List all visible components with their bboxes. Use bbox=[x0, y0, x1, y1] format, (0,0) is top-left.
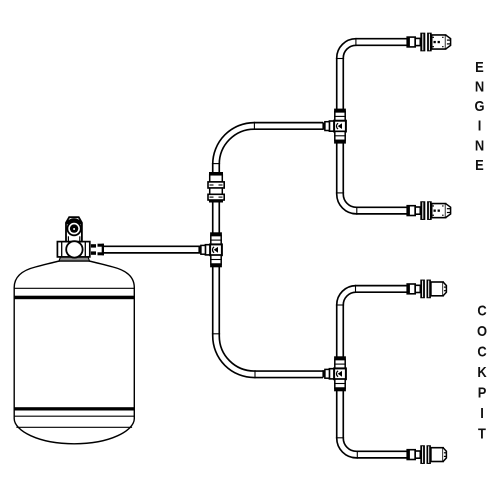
label ENGINE bbox=[474, 58, 484, 173]
svg-text:N: N bbox=[475, 136, 484, 153]
svg-text:C: C bbox=[477, 301, 486, 318]
wire joint tick engine bottom horiz bbox=[356, 207, 358, 215]
wire joint tick lower bend horiz bbox=[254, 370, 256, 378]
union flange lower bbox=[208, 194, 224, 200]
wire joint tick cockpit top horiz bbox=[355, 285, 357, 293]
gauge dial disc bbox=[70, 224, 78, 232]
valve block divider left bbox=[61, 242, 63, 257]
wire joint tick cockpit bottom vert bbox=[336, 437, 344, 439]
nozzle cockpit top bbox=[407, 280, 446, 299]
wire joint tick upper bend horiz bbox=[253, 122, 255, 130]
svg-text:P: P bbox=[478, 383, 487, 400]
valve base flange bbox=[59, 257, 90, 261]
svg-text:N: N bbox=[475, 77, 484, 94]
valve outlet nut bbox=[98, 244, 105, 247]
valve outlet rib bbox=[91, 244, 96, 247]
wire: tank valve to central tee bbox=[104, 246, 206, 254]
wire joint tick engine top vert bbox=[336, 58, 344, 60]
gauge housing bbox=[66, 217, 82, 241]
valve block divider right bbox=[84, 242, 86, 257]
svg-text:K: K bbox=[477, 363, 487, 380]
svg-text:E: E bbox=[475, 58, 484, 75]
svg-text:O: O bbox=[477, 322, 487, 339]
tank bottom weld line bbox=[14, 415, 134, 417]
svg-text:I: I bbox=[480, 404, 484, 421]
wire joint tick cockpit bottom horiz bbox=[356, 451, 358, 459]
tank top weld line bbox=[14, 287, 134, 289]
gauge top cap arc bbox=[67, 220, 82, 224]
valve handwheel circle bbox=[66, 241, 82, 257]
nozzle engine bottom bbox=[407, 201, 450, 220]
label COCKPIT bbox=[477, 301, 487, 441]
svg-text:G: G bbox=[474, 97, 484, 114]
svg-text:E: E bbox=[475, 156, 484, 173]
tank bottom inner line bbox=[16, 426, 132, 428]
wire joint tick engine bottom vert bbox=[336, 192, 344, 194]
tank bottom band bbox=[14, 407, 134, 410]
svg-text:T: T bbox=[478, 424, 486, 441]
gauge inner side lines bbox=[67, 236, 69, 241]
tank body outline bbox=[14, 261, 134, 444]
svg-text:C: C bbox=[477, 342, 486, 359]
union top nut bbox=[210, 175, 223, 182]
union top band bbox=[209, 172, 223, 175]
union flange upper bbox=[208, 182, 224, 188]
wire joint tick engine top horiz bbox=[355, 38, 357, 46]
gauge dial dot bbox=[73, 228, 75, 230]
union bottom band bbox=[209, 200, 223, 203]
valve block bbox=[57, 242, 89, 257]
wire joint tick cockpit top vert bbox=[336, 304, 344, 306]
wire: main run upper+lower (central vertical with both large bends) bbox=[216, 126, 323, 374]
nozzle engine top bbox=[407, 33, 450, 52]
nozzle cockpit bottom bbox=[407, 445, 446, 464]
wire: engine branch verticals and nozzle runs bbox=[340, 42, 408, 211]
wire joint tick central lower bbox=[212, 333, 220, 335]
tank top band bbox=[14, 296, 134, 300]
gauge ring bbox=[67, 222, 80, 235]
wire joint tick upper bend vert bbox=[212, 163, 220, 165]
svg-text:I: I bbox=[478, 117, 482, 134]
wire: cockpit branch verticals and nozzle runs bbox=[340, 289, 408, 455]
union middle bbox=[210, 188, 223, 194]
